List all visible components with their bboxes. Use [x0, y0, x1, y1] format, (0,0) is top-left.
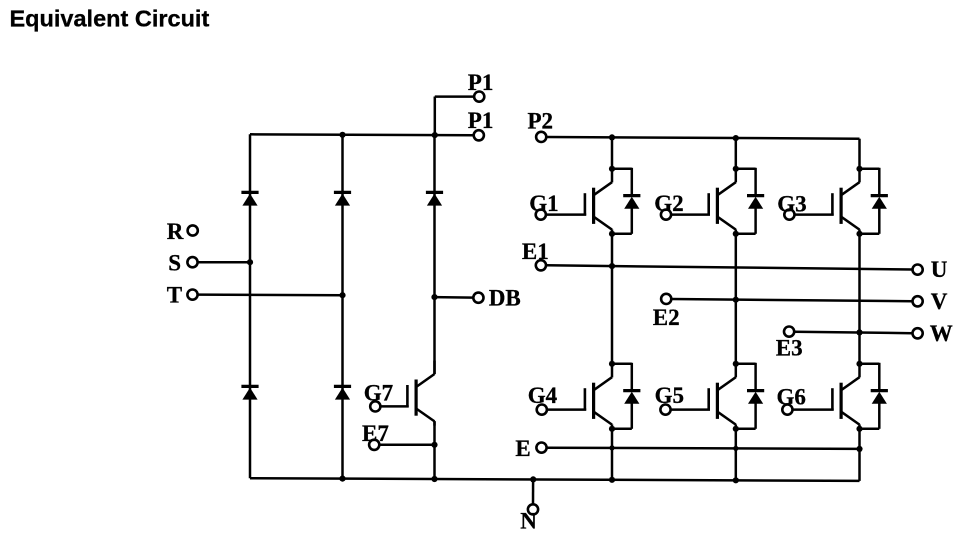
junction P2 rail leg2 — [733, 135, 739, 141]
wire leg1 mid vertical — [611, 234, 614, 364]
svg-text:G4: G4 — [528, 383, 558, 408]
diode FWD1 (freewheel of Q1) — [612, 168, 640, 234]
svg-text:G5: G5 — [655, 383, 684, 408]
junction DB node — [431, 294, 437, 300]
junction E rail leg2 — [733, 446, 738, 451]
svg-text:G1: G1 — [529, 191, 558, 216]
junction Q1 collector node — [609, 166, 615, 172]
wire E3/W rail — [794, 332, 912, 334]
svg-text:T: T — [167, 283, 182, 308]
junction P2 rail leg1 — [609, 134, 615, 140]
diode FWD6 (freewheel of Q6) — [860, 363, 888, 429]
junction E rail leg1 — [609, 445, 614, 450]
terminal G5 — [660, 405, 670, 415]
terminal G4 — [537, 405, 547, 415]
junction E7/chopper leg — [431, 442, 437, 448]
wire P2 rail — [546, 137, 859, 139]
diode D7 (brake, chopper leg) — [426, 191, 443, 194]
svg-text:U: U — [931, 257, 948, 282]
junction U rail leg1 — [609, 263, 615, 269]
svg-text:P1: P1 — [468, 70, 494, 95]
svg-text:E1: E1 — [522, 239, 549, 264]
transistor Q3 (IGBT G3) — [795, 169, 860, 234]
terminal E — [536, 443, 546, 453]
terminal P1 (upper) — [474, 92, 484, 102]
wire leg3 bottom vertical — [858, 429, 861, 481]
wire rectifier leg1 vertical — [249, 134, 252, 478]
junction Q2 emitter node — [733, 231, 739, 237]
diode D3 (leg2 upper) — [334, 191, 351, 194]
terminal W — [913, 328, 923, 338]
diode D1 (leg1 upper) — [241, 191, 258, 194]
svg-text:E2: E2 — [653, 305, 680, 330]
wire chopper leg lower vertical — [433, 421, 436, 479]
transistor Q4 (IGBT G4) — [547, 364, 612, 429]
diode FWD5 (freewheel of Q5) — [736, 363, 764, 429]
transistor Q1 (IGBT G1) — [546, 169, 612, 234]
terminal S — [187, 257, 197, 267]
junction Q5 collector node — [733, 361, 739, 367]
svg-text:Equivalent Circuit: Equivalent Circuit — [10, 5, 210, 31]
junction Q3 collector node — [856, 166, 862, 172]
transistor Q2 (IGBT G2) — [671, 169, 736, 234]
junction Q4 collector node — [609, 361, 615, 367]
wire leg3 mid vertical — [858, 234, 861, 364]
wire leg2 mid vertical — [735, 234, 738, 364]
terminal R — [188, 225, 198, 235]
terminal U — [913, 265, 923, 275]
junction Q5 emitter node — [733, 426, 739, 432]
svg-text:S: S — [168, 251, 181, 276]
svg-text:G6: G6 — [777, 385, 806, 410]
diode D2 (leg1 lower) — [241, 385, 258, 388]
svg-text:V: V — [931, 289, 948, 314]
junction bottom rail inverter leg2 — [733, 477, 739, 483]
diode FWD2 (freewheel of Q2) — [736, 168, 764, 234]
wire leg2 bottom vertical — [735, 429, 738, 481]
wire N bottom rail — [250, 478, 860, 481]
wire inverter leg2 drop — [735, 138, 738, 169]
wire leg1 bottom vertical — [611, 429, 614, 480]
wire E7 — [379, 444, 434, 447]
diode FWD3 (freewheel of Q3) — [860, 168, 888, 234]
junction Q1 emitter node — [609, 231, 615, 237]
svg-text:E7: E7 — [362, 421, 389, 446]
svg-text:DB: DB — [489, 285, 521, 310]
junction T/leg2 — [339, 292, 345, 298]
svg-text:N: N — [520, 508, 537, 533]
wire chopper leg upper vertical — [433, 135, 436, 374]
junction S/leg1 — [247, 259, 253, 265]
svg-text:W: W — [930, 321, 953, 346]
terminal G3 — [784, 210, 794, 220]
junction Q6 emitter node — [856, 426, 862, 432]
terminal P2 — [536, 132, 546, 142]
wire P1 stub horizontal — [435, 95, 474, 98]
wire E rail — [547, 448, 860, 449]
svg-text:G3: G3 — [777, 191, 806, 216]
transistor Q6 (IGBT G6) — [793, 364, 860, 429]
junction W rail leg3 — [856, 329, 862, 335]
wire E1/U rail — [546, 265, 912, 269]
wire P1 top rail — [250, 134, 474, 135]
terminal G1 — [536, 210, 546, 220]
svg-text:G2: G2 — [654, 191, 683, 216]
terminal E2 — [661, 294, 671, 304]
wire P1 stub vertical — [434, 97, 437, 136]
junction bottom rail inverter leg1 — [609, 477, 615, 483]
junction bottom rail leg2 — [339, 476, 345, 482]
terminal G6 — [782, 405, 792, 415]
wire inverter leg1 drop — [611, 137, 614, 168]
svg-text:G7: G7 — [364, 380, 393, 405]
transistor Q7 (brake IGBT G7) — [380, 361, 434, 426]
junction Q2 collector node — [733, 166, 739, 172]
junction Q6 collector node — [856, 361, 862, 367]
wire rectifier leg2 vertical — [341, 135, 344, 479]
diode FWD4 (freewheel of Q4) — [612, 363, 640, 429]
terminal E1 — [536, 260, 546, 270]
wire E2/V rail — [671, 299, 912, 301]
junction Q3 emitter node — [856, 231, 862, 237]
diode D4 (leg2 lower) — [334, 385, 351, 388]
junction bottom rail N stub — [530, 476, 536, 482]
svg-text:P2: P2 — [528, 109, 554, 134]
wire N stub — [532, 479, 535, 504]
terminal P1 (lower) — [474, 130, 484, 140]
wire T to leg2 — [198, 293, 343, 296]
junction on P1 rail at chopper leg — [432, 132, 438, 138]
junction on P1 rail at leg2 — [339, 132, 345, 138]
terminal DB — [473, 293, 483, 303]
terminal T — [187, 290, 197, 300]
junction bottom rail chopper — [431, 476, 437, 482]
wire DB — [435, 296, 474, 299]
junction E rail leg3 — [856, 446, 862, 452]
svg-text:E: E — [515, 436, 530, 461]
junction Q4 emitter node — [609, 426, 615, 432]
terminal V — [913, 296, 923, 306]
transistor Q5 (IGBT G5) — [671, 364, 736, 429]
junction V rail leg2 — [733, 297, 739, 303]
svg-text:P1: P1 — [468, 108, 494, 133]
svg-text:E3: E3 — [776, 335, 803, 360]
terminal E7 — [369, 440, 379, 450]
svg-text:R: R — [167, 219, 184, 244]
terminal N — [528, 504, 538, 514]
terminal E3 — [784, 327, 794, 337]
wire inverter leg3 vertical (from P2 rail) — [858, 139, 861, 169]
terminal G7 — [370, 401, 380, 411]
terminal G2 — [661, 210, 671, 220]
wire S to leg1 — [198, 261, 250, 264]
